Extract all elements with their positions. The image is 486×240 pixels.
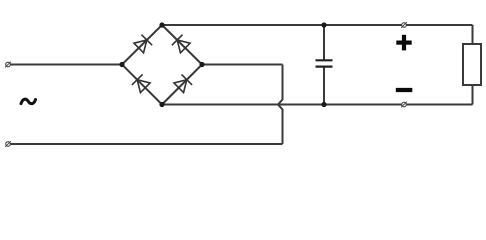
capacitor C1 plates [316,60,333,66]
junction dot bridge left node [119,62,124,67]
wire bridge right node to AC2 riser [202,64,283,66]
junction dot capacitor top [321,22,326,27]
diode D3 (- node to left node) [132,74,151,93]
junction dot bridge top node [159,22,164,27]
wire bridge diagonal left-bottom [122,65,162,105]
wire resistor top lead [472,25,474,44]
resistor R1 (load) [463,44,481,85]
label AC source tilde [21,99,36,104]
terminal AC input 1 [5,62,11,68]
wire AC1 terminal to bridge left node [11,64,123,66]
terminal DC output + [401,22,407,28]
wire bottom rail (bridge - node to load) [162,104,473,106]
label polarity plus [396,35,411,51]
capacitor C1 top lead [323,25,325,60]
terminal DC output - [401,102,407,108]
diode D4 (- node to right node) [173,74,192,93]
wire bridge diagonal left-top [122,25,162,65]
wire AC2 riser with crossover hop at bottom rail [278,65,283,145]
wire top rail (bridge + node to load) [162,24,473,26]
wire resistor bottom lead [472,85,474,105]
junction dot bridge bottom node [159,102,164,107]
junction dot bridge right node [199,62,204,67]
junction dot capacitor bottom [321,102,326,107]
wire bridge diagonal bottom-right [162,65,202,105]
terminal AC input 2 [5,141,11,147]
label polarity minus [396,88,413,92]
diode D1 (left node to + node) [133,35,152,54]
diode D2 (right node to + node) [172,35,191,54]
capacitor C1 bottom lead [323,67,325,105]
wire AC2 terminal to riser [11,143,283,145]
wire bridge diagonal top-right [162,25,202,65]
